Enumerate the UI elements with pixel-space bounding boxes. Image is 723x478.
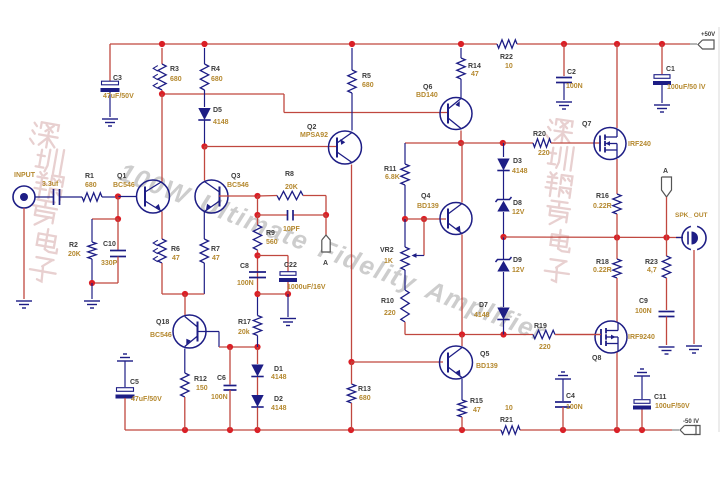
svg-text:BC546: BC546 bbox=[150, 332, 172, 339]
svg-text:C8: C8 bbox=[240, 263, 249, 270]
svg-text:D8: D8 bbox=[513, 200, 522, 207]
svg-text:BD140: BD140 bbox=[416, 92, 438, 99]
svg-text:Q2: Q2 bbox=[307, 124, 316, 131]
svg-text:BD139: BD139 bbox=[417, 203, 439, 210]
svg-text:A: A bbox=[663, 168, 668, 175]
svg-text:100N: 100N bbox=[566, 83, 583, 90]
svg-text:100N: 100N bbox=[211, 394, 228, 401]
svg-text:A: A bbox=[323, 260, 328, 267]
svg-text:D7: D7 bbox=[479, 302, 488, 309]
svg-text:R3: R3 bbox=[170, 66, 179, 73]
svg-text:100N: 100N bbox=[566, 404, 583, 411]
svg-text:D9: D9 bbox=[513, 257, 522, 264]
svg-text:6.8K: 6.8K bbox=[385, 174, 400, 181]
svg-text:12V: 12V bbox=[512, 209, 525, 216]
svg-text:R21: R21 bbox=[500, 417, 513, 424]
svg-text:VR2: VR2 bbox=[380, 247, 394, 254]
svg-text:C3: C3 bbox=[113, 75, 122, 82]
svg-text:C6: C6 bbox=[217, 375, 226, 382]
svg-text:10: 10 bbox=[505, 63, 513, 70]
svg-text:47uF/50V: 47uF/50V bbox=[103, 93, 134, 100]
svg-text:C22: C22 bbox=[284, 262, 297, 269]
svg-text:Q1: Q1 bbox=[117, 173, 126, 180]
svg-text:100N: 100N bbox=[635, 308, 652, 315]
svg-text:4148: 4148 bbox=[474, 312, 490, 319]
svg-text:Q18: Q18 bbox=[156, 319, 169, 326]
svg-text:680: 680 bbox=[170, 76, 182, 83]
svg-text:47: 47 bbox=[172, 255, 180, 262]
svg-text:INPUT: INPUT bbox=[14, 172, 36, 179]
svg-text:1000uF/16V: 1000uF/16V bbox=[287, 284, 326, 291]
svg-text:Q4: Q4 bbox=[421, 193, 430, 200]
svg-text:560: 560 bbox=[266, 239, 278, 246]
svg-text:220: 220 bbox=[539, 344, 551, 351]
svg-text:R8: R8 bbox=[285, 171, 294, 178]
svg-text:R18: R18 bbox=[596, 259, 609, 266]
svg-text:C1: C1 bbox=[666, 66, 675, 73]
svg-text:R19: R19 bbox=[534, 323, 547, 330]
svg-text:R6: R6 bbox=[171, 246, 180, 253]
svg-text:R17: R17 bbox=[238, 319, 251, 326]
svg-text:R14: R14 bbox=[468, 63, 481, 70]
svg-text:R12: R12 bbox=[194, 376, 207, 383]
svg-text:680: 680 bbox=[362, 82, 374, 89]
svg-text:SPK_ OUT: SPK_ OUT bbox=[675, 212, 708, 219]
svg-text:47: 47 bbox=[212, 255, 220, 262]
svg-text:R1: R1 bbox=[85, 173, 94, 180]
svg-text:4148: 4148 bbox=[271, 374, 287, 381]
svg-text:4148: 4148 bbox=[213, 119, 229, 126]
svg-text:R4: R4 bbox=[211, 66, 220, 73]
svg-text:47uF/50V: 47uF/50V bbox=[131, 396, 162, 403]
svg-text:10: 10 bbox=[505, 405, 513, 412]
svg-text:R9: R9 bbox=[266, 230, 275, 237]
svg-text:680: 680 bbox=[211, 76, 223, 83]
svg-text:-50 lV: -50 lV bbox=[683, 419, 699, 425]
svg-text:IRF9240: IRF9240 bbox=[628, 334, 655, 341]
svg-text:Q8: Q8 bbox=[592, 355, 601, 362]
svg-text:20k: 20k bbox=[238, 329, 250, 336]
svg-text:4148: 4148 bbox=[271, 405, 287, 412]
svg-text:20K: 20K bbox=[68, 251, 81, 258]
svg-text:3.3uf: 3.3uf bbox=[42, 181, 59, 188]
svg-text:100uF/50V: 100uF/50V bbox=[655, 403, 690, 410]
svg-text:R10: R10 bbox=[381, 298, 394, 305]
svg-text:47: 47 bbox=[473, 407, 481, 414]
svg-text:47: 47 bbox=[471, 71, 479, 78]
svg-text:D1: D1 bbox=[274, 366, 283, 373]
svg-text:D5: D5 bbox=[213, 107, 222, 114]
svg-text:150: 150 bbox=[196, 385, 208, 392]
svg-text:100uF/50 lV: 100uF/50 lV bbox=[667, 84, 706, 91]
svg-text:IRF240: IRF240 bbox=[628, 141, 651, 148]
svg-text:Q5: Q5 bbox=[480, 351, 489, 358]
svg-text:0.22R: 0.22R bbox=[593, 267, 612, 274]
svg-text:4,7: 4,7 bbox=[647, 267, 657, 274]
svg-text:R2: R2 bbox=[69, 242, 78, 249]
svg-text:MPSA92: MPSA92 bbox=[300, 132, 328, 139]
svg-text:Q6: Q6 bbox=[423, 84, 432, 91]
svg-text:R16: R16 bbox=[596, 193, 609, 200]
svg-text:680: 680 bbox=[359, 395, 371, 402]
svg-text:Q3: Q3 bbox=[231, 173, 240, 180]
svg-text:BC546: BC546 bbox=[113, 182, 135, 189]
svg-text:12V: 12V bbox=[512, 267, 525, 274]
svg-text:1K: 1K bbox=[384, 258, 393, 265]
svg-text:R22: R22 bbox=[500, 54, 513, 61]
svg-text:+50V: +50V bbox=[701, 32, 715, 38]
svg-text:C10: C10 bbox=[103, 241, 116, 248]
svg-text:R15: R15 bbox=[470, 398, 483, 405]
svg-text:10PF: 10PF bbox=[283, 226, 300, 233]
svg-text:R20: R20 bbox=[533, 131, 546, 138]
svg-text:BD139: BD139 bbox=[476, 363, 498, 370]
svg-text:C2: C2 bbox=[567, 69, 576, 76]
svg-text:R11: R11 bbox=[384, 166, 397, 173]
svg-text:R13: R13 bbox=[358, 386, 371, 393]
svg-text:Q7: Q7 bbox=[582, 121, 591, 128]
svg-text:BC546: BC546 bbox=[227, 182, 249, 189]
svg-text:0.22R: 0.22R bbox=[593, 203, 612, 210]
svg-text:330P: 330P bbox=[101, 260, 118, 267]
svg-text:680: 680 bbox=[85, 182, 97, 189]
svg-text:R7: R7 bbox=[211, 246, 220, 253]
svg-text:C9: C9 bbox=[639, 298, 648, 305]
svg-text:C11: C11 bbox=[654, 394, 667, 401]
svg-text:220: 220 bbox=[384, 310, 396, 317]
svg-text:100N: 100N bbox=[237, 280, 254, 287]
svg-text:220: 220 bbox=[538, 150, 550, 157]
svg-text:D3: D3 bbox=[513, 158, 522, 165]
svg-text:20K: 20K bbox=[285, 184, 298, 191]
svg-text:C4: C4 bbox=[566, 393, 575, 400]
svg-text:4148: 4148 bbox=[512, 168, 528, 175]
svg-text:R5: R5 bbox=[362, 73, 371, 80]
svg-text:C5: C5 bbox=[130, 379, 139, 386]
svg-text:R23: R23 bbox=[645, 259, 658, 266]
svg-text:D2: D2 bbox=[274, 396, 283, 403]
